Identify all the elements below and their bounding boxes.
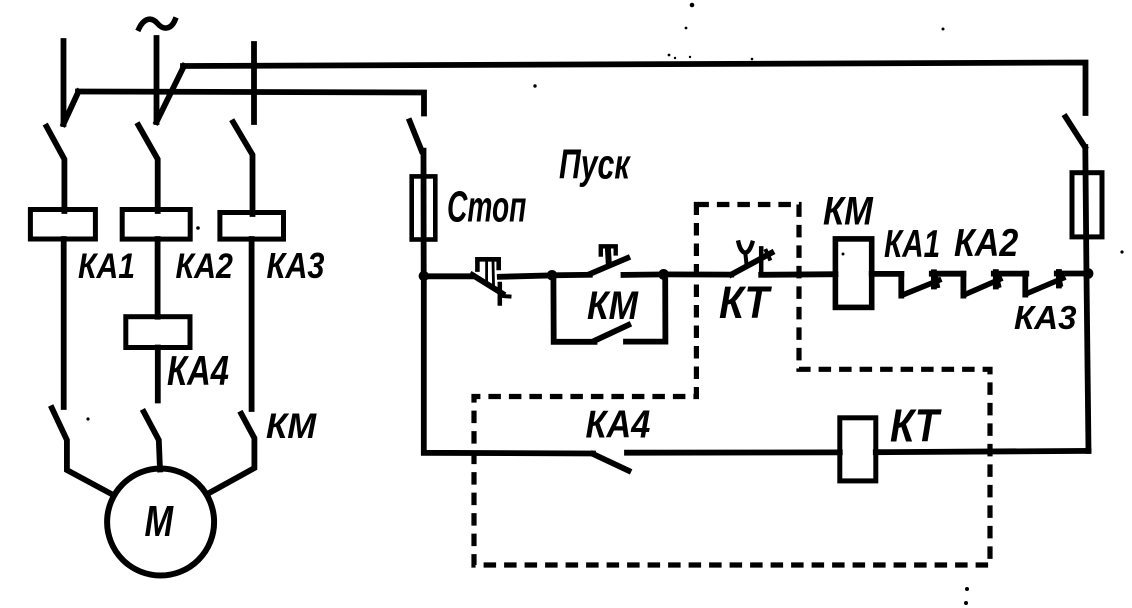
svg-text:КА4: КА4 <box>167 347 229 394</box>
svg-text:КА2: КА2 <box>176 246 233 286</box>
svg-text:КТ: КТ <box>890 401 942 452</box>
svg-text:КМ: КМ <box>266 407 317 446</box>
svg-text:КМ: КМ <box>587 283 639 328</box>
svg-text:КА4: КА4 <box>586 403 651 446</box>
svg-text:КА1: КА1 <box>884 223 940 266</box>
svg-text:Пуск: Пуск <box>559 141 632 188</box>
svg-text:М: М <box>145 497 175 546</box>
svg-text:Стоп: Стоп <box>447 182 526 231</box>
svg-text:КА3: КА3 <box>267 247 325 287</box>
svg-text:КТ: КТ <box>719 278 773 328</box>
svg-text:КА2: КА2 <box>954 221 1018 265</box>
svg-text:КА3: КА3 <box>1014 299 1076 336</box>
svg-text:КА1: КА1 <box>78 246 135 286</box>
svg-text:КМ: КМ <box>823 188 874 233</box>
